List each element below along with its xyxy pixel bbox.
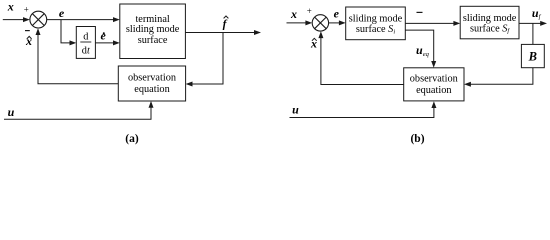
svg-text:B: B: [528, 49, 537, 63]
wire u into observation equation (a): [4, 101, 154, 119]
svg-text:x: x: [7, 0, 14, 14]
block B (b): [521, 44, 544, 67]
block U4: sliding mode surface Sf (b): [460, 6, 519, 39]
svg-text:observation: observation: [128, 73, 176, 84]
svg-text:u: u: [8, 105, 15, 119]
svg-text:dt: dt: [82, 46, 91, 57]
svg-text:d: d: [83, 32, 89, 43]
block U3: sliding mode surface Si (b): [346, 7, 406, 40]
wire branch from e down to d/dt box (a): [61, 20, 76, 46]
wire x input arrow into summer (b): [287, 20, 313, 25]
svg-text:ueq: ueq: [416, 43, 430, 58]
wire branch from u-f down into B (b): [532, 23, 534, 44]
svg-text:uf: uf: [532, 6, 542, 21]
svg-text:e: e: [334, 6, 340, 20]
wire f-hat output arrow (a): [185, 30, 261, 35]
wire u-f output arrow (b): [519, 21, 547, 26]
minus sign on comparison wire (b): [417, 11, 423, 13]
wire e from summer to sliding mode surface Si (b): [329, 20, 346, 25]
wire e from summer to terminal sliding mode surface box (a): [47, 17, 120, 22]
svg-text:surface: surface: [138, 35, 168, 46]
svg-text:x: x: [310, 36, 317, 50]
summing junction (b): [312, 15, 328, 31]
svg-text:(a): (a): [125, 133, 139, 145]
wire u into observation equation (b): [290, 101, 437, 117]
wire feedback from observation equation to summer x-hat (b): [318, 31, 403, 84]
svg-text:(b): (b): [410, 133, 424, 145]
wire feedback from observation equation to summer x-hat (a): [36, 28, 119, 84]
summing junction (a): [30, 11, 47, 28]
wire feedback from f-hat down into observation equation box (a): [186, 33, 223, 87]
block U1: terminal sliding mode surface (a): [120, 4, 186, 59]
wire from B into observation equation right side (b): [464, 68, 533, 87]
wire x input arrow into summer (a): [3, 17, 30, 22]
svg-text:+: +: [307, 6, 312, 16]
svg-text:e: e: [101, 29, 107, 43]
svg-text:sliding mode: sliding mode: [126, 24, 180, 35]
wire u-eq from Si down into observation equation top (b): [405, 30, 436, 68]
block U2: observation equation (a): [118, 66, 185, 101]
svg-text:sliding mode: sliding mode: [463, 13, 517, 24]
svg-text:sliding mode: sliding mode: [349, 14, 403, 25]
svg-text:e: e: [59, 6, 65, 20]
derivative block d/dt (a): [76, 27, 95, 59]
svg-text:u: u: [292, 103, 299, 117]
minus sign at summer (a): [25, 30, 30, 32]
svg-text:surface Sf: surface Sf: [470, 23, 510, 34]
svg-text:+: +: [24, 4, 29, 14]
wire e-dot from d/dt to terminal sliding mode surface box (a): [95, 40, 119, 45]
svg-text:equation: equation: [416, 85, 451, 96]
svg-text:x: x: [290, 7, 297, 21]
wire from Si to Sf (b): [405, 21, 460, 26]
svg-text:x: x: [25, 34, 32, 48]
svg-text:equation: equation: [134, 84, 169, 95]
svg-text:surface Si: surface Si: [356, 24, 395, 35]
svg-text:f: f: [223, 19, 228, 31]
block U5: observation equation (b): [404, 68, 464, 101]
svg-text:observation: observation: [410, 74, 458, 85]
